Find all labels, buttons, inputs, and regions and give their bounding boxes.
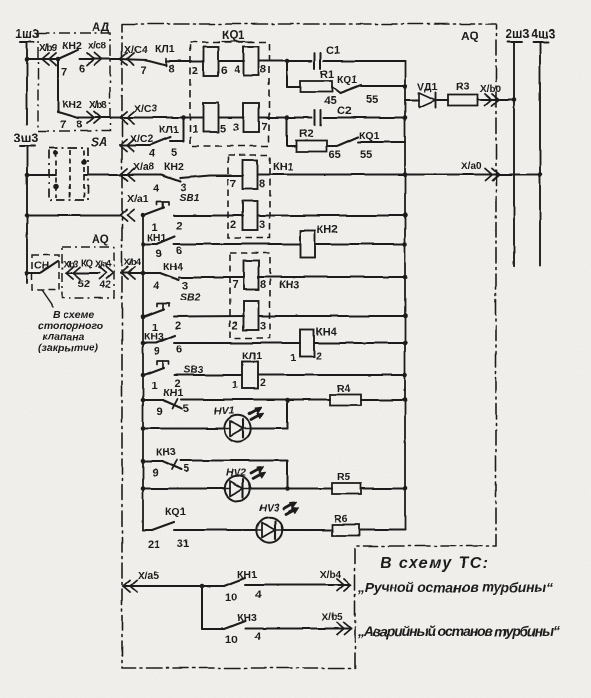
svg-text:8: 8 [259,178,265,190]
svg-text:X/a1: X/a1 [127,193,149,205]
contact KN2 4-3 [153,161,186,195]
node AD-1 [56,57,61,62]
bus 3sh3 [14,131,38,283]
svg-text:„Ручной останов турбины“: „Ручной останов турбины“ [357,579,553,595]
contact KQ1 21-31 [143,506,189,551]
svg-text:КН3: КН3 [279,279,300,291]
connector X/C3 [120,103,158,124]
svg-text:7: 7 [261,121,267,133]
svg-text:КН2: КН2 [62,99,82,111]
svg-text:4: 4 [153,183,160,195]
svg-text:5: 5 [171,147,177,159]
svg-text:6: 6 [176,245,182,257]
relay contact box KQ1 [190,30,269,146]
button SB3 [144,361,204,392]
wire KN1-2-3-to-wall [258,215,406,217]
wire X/a5 [123,585,224,587]
svg-text:(закрытие): (закрытие) [38,342,99,354]
contact KN2 7-8 [58,99,107,131]
svg-text:55: 55 [366,94,378,106]
wire KN2coil-to-wall [315,243,405,245]
wire bottom vertical [201,586,203,629]
note stop-valve text [38,309,104,354]
svg-text:4: 4 [153,280,160,292]
svg-text:8: 8 [260,64,266,76]
wire HV1-to-node [251,428,288,430]
resistor R6 [332,513,359,536]
node wall-Xa0 [403,172,408,177]
svg-text:8: 8 [76,119,82,131]
wire SB1-to-KN1box [174,215,243,217]
svg-text:3ш3: 3ш3 [14,131,38,145]
svg-text:„Аварийный останов турбины“: „Аварийный останов турбины“ [357,623,560,639]
svg-text:9: 9 [156,248,162,260]
svg-text:3: 3 [260,320,266,332]
contact KQ1 3-7 [233,103,267,134]
svg-text:АД: АД [92,20,110,34]
node wall-sb2row [403,314,408,319]
wire bus3-row2 [25,213,120,218]
connector X/b5 bottom [322,612,351,635]
wire R3-to-bus2 [478,99,514,101]
svg-text:2: 2 [175,320,181,332]
lamp HV2 [225,466,266,501]
svg-text:КН4: КН4 [163,261,183,273]
wire SB2-to-KN3box [174,315,244,318]
svg-text:R5: R5 [337,471,351,483]
node HV1-top [285,398,290,403]
svg-text:5: 5 [183,463,189,475]
contact KN2 7-6 [58,40,85,78]
node wall-r5 [403,486,408,491]
wire KN1-10-4-to-Xb4 [245,584,351,586]
svg-text:X/b3: X/b3 [63,259,78,270]
svg-text:КЛ1: КЛ1 [155,43,175,55]
svg-text:4: 4 [149,148,156,160]
svg-text:АQ: АQ [461,29,479,43]
svg-text:X/b5: X/b5 [322,612,344,623]
svg-text:R1: R1 [320,69,334,81]
relay contact box KN3 [230,253,300,338]
svg-text:4: 4 [255,631,262,643]
wire HV3-to-R6 [282,529,332,531]
contact KN3 2-3 [232,301,266,332]
box AQ stop-valve [62,234,114,298]
svg-text:КQ1: КQ1 [222,30,245,42]
resistor R4 [330,383,361,406]
svg-text:C2: C2 [337,105,351,117]
connector X/a0 [461,161,499,181]
svg-text:X/C4: X/C4 [124,44,148,56]
svg-text:8: 8 [260,279,266,291]
contact KN3 9-6 [143,331,182,358]
node SB1 [141,213,146,218]
svg-text:31: 31 [177,538,189,550]
node C1 [285,59,290,64]
wire bus3-row3 [25,271,40,276]
svg-text:6: 6 [79,63,85,75]
left rail mid4 [142,375,144,400]
wire KN1-to-wall [258,174,406,176]
svg-text:5: 5 [183,403,189,415]
svg-text:7: 7 [61,66,67,78]
dash-dot box AD (SA switch block) [38,33,110,131]
wire wall-to-VD1 [405,99,419,101]
node wall-r4 [403,398,408,403]
wire C1-R1 vertical [286,61,288,87]
svg-text:КН2: КН2 [317,224,338,236]
dash-dot enclosure border AQ [122,24,496,668]
node KN3-9-5 [141,459,146,464]
svg-text:X/a0: X/a0 [461,161,482,172]
button SB2 [144,291,201,334]
contact KL1 4-5 [149,137,177,160]
wire KN4-to-KN3box [179,277,244,279]
label AD [92,20,110,34]
connector X/b4 bottom [320,570,351,591]
lamp HV1 [214,405,264,442]
wire KL1coil-to-wall [258,374,405,376]
wire bus1-to-XB9 [25,57,42,62]
wire X/a8 [120,174,161,176]
bus 1sh3 [15,27,39,124]
wire inside AQ [66,273,99,290]
svg-text:КЛ1: КЛ1 [242,350,262,362]
svg-text:SB1: SB1 [179,192,200,204]
node wall-kn4coil [403,341,408,346]
relay coil KN4 [290,326,338,364]
svg-text:HV1: HV1 [214,405,235,417]
svg-text:X/b4: X/b4 [320,570,342,581]
node SB2 [141,314,146,319]
relay coil KL1 [232,350,266,391]
svg-text:7: 7 [141,65,147,77]
svg-text:1: 1 [192,124,198,136]
wire plug-to-border [84,174,122,176]
svg-text:2: 2 [192,65,198,77]
note TS circuit text [357,555,560,639]
svg-text:45: 45 [324,95,336,107]
node bus2-VD1 [512,98,517,103]
svg-text:4ш3: 4ш3 [531,27,555,41]
contact KN1 9-5 [144,387,189,418]
svg-text:КН3: КН3 [156,446,176,458]
left rail lower [142,489,144,531]
node wall-sb1row [403,213,408,218]
wire KN4coil-to-wall [314,342,405,344]
wire KL1-to-KQ1 [166,60,203,62]
svg-text:КН3: КН3 [237,612,257,624]
wire Xb4-to-rail [121,271,160,276]
node R1-right [403,84,408,89]
connector X/b9 [39,43,58,65]
wire R4-to-wall [361,399,405,401]
contact KN3 10-4 [202,612,262,646]
svg-text:C1: C1 [326,45,340,57]
svg-text:7: 7 [60,119,66,131]
svg-text:65: 65 [329,149,341,161]
svg-text:1: 1 [151,380,157,392]
svg-text:1ш3: 1ш3 [15,27,39,41]
wire KQ1-to-C1node [259,60,288,62]
svg-text:4: 4 [234,64,241,76]
wire KQ1 row2 mid [219,117,245,119]
svg-text:SB2: SB2 [180,291,201,303]
connector X/b4 border [121,257,142,279]
svg-text:2: 2 [316,350,322,362]
wire bus3-row1 [25,173,56,178]
svg-text:КН1: КН1 [237,569,257,581]
svg-text:КН2: КН2 [62,40,82,52]
wire X/C2 [120,144,150,146]
svg-text:КQ1: КQ1 [165,506,186,518]
svg-text:5: 5 [220,123,226,135]
svg-text:6: 6 [221,65,227,77]
node wall-kl1coil [403,373,408,378]
svg-text:В схему ТС:: В схему ТС: [380,555,488,572]
left rail mid5 [141,400,146,431]
node C2 [285,115,290,120]
wire KN1-9-5-to-R4 [181,399,330,402]
wire KN3-7-8-to-wall [259,276,406,278]
svg-text:VД1: VД1 [417,81,437,93]
connector X/b0 [480,84,502,106]
svg-text:1: 1 [290,352,296,364]
connector X/a8 [120,161,155,181]
connector X/C4 [120,43,175,65]
svg-text:2: 2 [230,219,236,231]
contact CH [40,261,58,273]
wire KN3-9-6-to-coil [174,342,300,344]
svg-text:3: 3 [233,122,239,134]
connector X/a5 [123,570,160,592]
svg-text:X/a5: X/a5 [138,570,160,582]
svg-text:X/b4: X/b4 [124,257,142,268]
bus 4sh3 [531,27,555,266]
button SB1 [144,192,200,234]
lamp HV3 [257,502,299,543]
wire KN2-to-border [80,58,122,60]
svg-text:X/b9: X/b9 [39,43,57,54]
left rail upper [141,216,146,274]
contact KN4 4-3 [153,261,188,292]
wire KN2-to-border row2 [78,117,122,119]
wire KQ1-to-HV3 [174,529,257,531]
bus 2sh3 [505,27,529,266]
contact KN3 9-5 [144,446,189,479]
svg-text:R6: R6 [334,513,348,525]
resistor R3 [448,81,478,106]
wire KN3-2-3-to-wall [259,315,406,317]
svg-text:9: 9 [154,346,160,358]
svg-text:СН: СН [34,260,49,272]
svg-text:X/b8: X/b8 [89,100,107,111]
resistor R2 [287,128,327,152]
node bus4-Xa0 [538,172,543,177]
contact KN1 10-4 [224,569,262,604]
svg-text:42: 42 [99,279,111,291]
left rail mid3 [141,343,146,377]
svg-text:2ш3: 2ш3 [505,27,529,41]
svg-text:X/a4: X/a4 [95,259,112,270]
wire R5-to-wall [361,488,405,490]
wire HV2-to-node [250,488,288,490]
svg-text:КQ: КQ [81,258,93,269]
svg-text:X/C2: X/C2 [130,133,154,145]
contact KQ1 1-5 [192,103,226,136]
svg-text:3: 3 [259,219,265,231]
svg-text:52: 52 [78,278,90,290]
svg-text:X/a8: X/a8 [133,161,155,173]
node HV2-R5 [285,486,290,491]
node wall-kn4row [403,275,408,280]
wire KQ1 row1 mid [219,60,245,62]
svg-text:7: 7 [232,279,238,291]
svg-text:x/c8: x/c8 [88,41,106,52]
svg-text:2: 2 [260,377,266,389]
node C2-right [403,115,408,120]
svg-text:2: 2 [232,320,238,332]
left rail mid1 [142,273,144,317]
wire X/C4 [120,59,147,60]
relay coil KN2 [300,224,338,258]
relay contact box KN1 [228,155,294,238]
capacitor C1 [287,45,405,69]
svg-text:8: 8 [168,63,174,75]
svg-text:HV3: HV3 [259,502,280,514]
svg-text:9: 9 [157,406,163,418]
svg-text:КQ1: КQ1 [337,74,358,86]
svg-text:X/b0: X/b0 [480,84,502,95]
left rail mid6 [142,429,144,462]
wire rail-to-HV2 [143,488,225,490]
svg-text:2: 2 [176,220,182,232]
label SA [91,135,108,149]
wire VD1-R3 [436,99,449,101]
svg-text:КН4: КН4 [316,326,338,338]
svg-text:КН2: КН2 [164,161,184,173]
svg-text:R2: R2 [299,128,313,140]
svg-text:КЛ1: КЛ1 [159,124,179,136]
node bottom-tee [200,584,205,589]
right wall of RC box [404,61,406,530]
contact KL1 7-8 [141,58,174,77]
contact KQ1 2-6 [192,47,227,78]
left rail mid2 [141,317,146,345]
box CH [32,255,59,290]
svg-text:SA: SA [91,135,108,149]
svg-text:55: 55 [360,149,372,161]
connector X/a4 out [95,259,113,291]
connector x/c8 [87,41,106,65]
svg-text:КQ1: КQ1 [359,130,380,142]
svg-text:КН1: КН1 [147,232,167,244]
connector X/b3 [63,258,93,279]
contact KQ1 4-8 [234,47,266,77]
wire HV2 vertical [287,461,289,489]
wire SB3-to-KL1coil [174,374,242,376]
svg-text:КН1: КН1 [163,387,183,399]
wire KQ1-to-C2node [259,117,288,119]
node KL1-join [181,115,186,120]
contact KN3 7-8 [232,261,266,292]
node KN1-9-5 [141,398,146,403]
resistor R1 [287,69,334,92]
wire AD vertical [57,59,59,112]
wire KN1-9-6-to-coil [174,243,300,245]
svg-text:10: 10 [225,592,237,604]
svg-text:КН3: КН3 [144,331,164,343]
contact KN1 9-6 [143,232,182,260]
connector X/b8 arrow [87,112,101,124]
svg-text:АQ: АQ [92,234,109,246]
wire R6-to-wall [359,529,405,531]
svg-text:9: 9 [152,467,158,479]
svg-text:7: 7 [230,178,236,190]
svg-text:6: 6 [176,344,182,356]
contact KN1 2-3 [230,201,265,231]
contact KQ1 65-55 [327,130,405,161]
wire KN2-to-KN1box [180,176,243,179]
svg-text:R4: R4 [337,383,351,395]
contact KQ1 45-55 [324,74,405,107]
left rail mid7 [141,461,146,491]
diode VD1 [417,81,437,108]
connector X/a1 [120,193,149,222]
node wall-kn2coil [403,242,408,247]
wire X/a0 to buses [405,174,540,176]
svg-text:R3: R3 [456,81,470,93]
wire KN3-9-5-right [180,460,288,462]
svg-text:X/C3: X/C3 [134,103,158,115]
plug-in unit box [49,148,88,200]
capacitor C2 [287,105,405,125]
svg-text:1: 1 [232,379,238,391]
wire KL1-up [170,118,183,142]
resistor R5 [288,471,362,494]
wire HV1 vertical [287,400,289,429]
contact KN1 7-8 [230,160,265,190]
wire KN3-10-4-to-Xb5 [245,628,351,630]
wire C2-R2 vertical [286,118,288,147]
svg-text:КН1: КН1 [273,161,294,173]
svg-text:10: 10 [225,634,237,646]
pointer line to note [42,291,53,307]
svg-text:21: 21 [148,539,160,551]
connector X/C2 [120,124,179,151]
wire X/C3 [120,117,203,119]
wire rail-to-HV1 [143,428,224,430]
svg-text:HV2: HV2 [226,467,247,479]
svg-text:4: 4 [255,589,262,601]
